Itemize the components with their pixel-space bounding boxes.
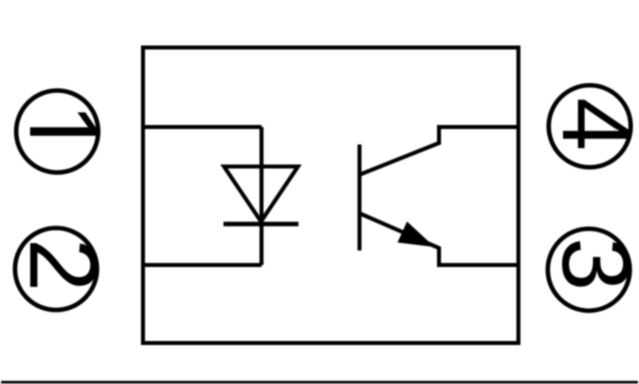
- package outline box U1: [143, 48, 518, 344]
- transistor Q1 collector wire to pin4: [360, 127, 518, 175]
- pin label 1: [30, 112, 96, 135]
- pin circle 3: [548, 229, 630, 311]
- diode D1 triangle (LED): [224, 167, 298, 222]
- pin circle 1: [16, 91, 98, 173]
- wire anode-cathode vertical: [260, 127, 264, 265]
- bottom horizontal rule: [1, 381, 638, 384]
- pin label 4: [563, 100, 629, 148]
- transistor Q1 base bar: [358, 145, 362, 251]
- pin circle 2: [15, 228, 97, 310]
- wire pin1 to anode: [143, 125, 262, 129]
- pin circle 4: [549, 85, 631, 167]
- diode D1 cathode bar: [224, 222, 299, 227]
- pin label 2: [30, 243, 97, 287]
- transistor Q1 emitter wire to pin3: [360, 214, 518, 266]
- transistor Q1 emitter arrowhead: [398, 222, 435, 248]
- pin label 3: [562, 241, 630, 287]
- wire cathode to pin2: [143, 263, 262, 267]
